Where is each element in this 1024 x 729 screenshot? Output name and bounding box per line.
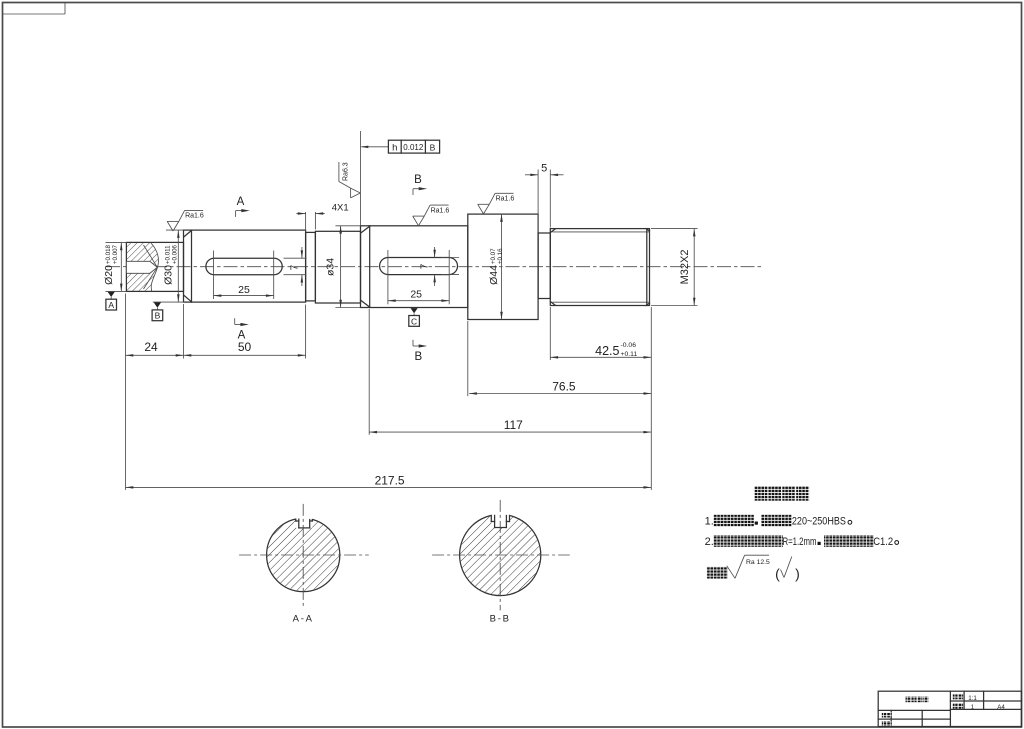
svg-text:4X1: 4X1 bbox=[332, 203, 349, 214]
svg-text:+0.006: +0.006 bbox=[171, 244, 178, 264]
svg-text:5: 5 bbox=[541, 163, 547, 175]
svg-text:Ø20: Ø20 bbox=[103, 265, 115, 285]
svg-text:50: 50 bbox=[238, 340, 252, 354]
svg-text:h: h bbox=[392, 143, 397, 154]
svg-text:-0.06: -0.06 bbox=[621, 342, 637, 349]
svg-text:25: 25 bbox=[410, 288, 422, 300]
svg-text:0.012: 0.012 bbox=[403, 143, 424, 152]
svg-text:C1.2: C1.2 bbox=[873, 536, 893, 548]
svg-text:76.5: 76.5 bbox=[552, 380, 576, 394]
svg-text:25: 25 bbox=[238, 284, 250, 296]
svg-text:Ø30: Ø30 bbox=[163, 265, 175, 285]
svg-text:Ra 12.5: Ra 12.5 bbox=[746, 559, 770, 566]
svg-text:(: ( bbox=[775, 566, 780, 582]
svg-text:A: A bbox=[237, 196, 245, 208]
svg-text:M32X2: M32X2 bbox=[679, 250, 691, 285]
svg-text:7: 7 bbox=[290, 264, 301, 270]
svg-text:Ø44: Ø44 bbox=[488, 265, 500, 285]
svg-text:C: C bbox=[411, 316, 417, 326]
svg-text:Ra6.3: Ra6.3 bbox=[343, 162, 350, 181]
svg-text:+0.16: +0.16 bbox=[497, 248, 504, 264]
svg-text:117: 117 bbox=[504, 418, 523, 432]
svg-text:A: A bbox=[108, 300, 114, 310]
svg-text:217.5: 217.5 bbox=[375, 474, 405, 488]
svg-text:+0.007: +0.007 bbox=[112, 244, 119, 264]
svg-text:42.5: 42.5 bbox=[595, 344, 619, 358]
svg-text:220~250HBS: 220~250HBS bbox=[792, 516, 846, 528]
svg-text:1.: 1. bbox=[705, 516, 714, 528]
svg-text:B: B bbox=[414, 351, 422, 363]
svg-text:A4: A4 bbox=[997, 704, 1005, 711]
svg-text:1:1: 1:1 bbox=[968, 695, 977, 702]
svg-text:+0.11: +0.11 bbox=[621, 351, 638, 358]
svg-text:7: 7 bbox=[420, 263, 431, 269]
svg-text:A-A: A-A bbox=[293, 614, 314, 625]
svg-text:ø34: ø34 bbox=[325, 258, 337, 276]
svg-text:2.: 2. bbox=[705, 536, 714, 548]
svg-text:A: A bbox=[238, 330, 246, 342]
svg-text:B-B: B-B bbox=[490, 614, 511, 625]
svg-text:1: 1 bbox=[971, 704, 975, 711]
svg-text:Ra1.6: Ra1.6 bbox=[496, 196, 515, 203]
svg-text:24: 24 bbox=[144, 340, 158, 354]
svg-text:R=1.2mm: R=1.2mm bbox=[783, 536, 817, 548]
svg-text:): ) bbox=[795, 566, 800, 582]
svg-text:Ra1.6: Ra1.6 bbox=[431, 207, 450, 214]
svg-text:B: B bbox=[414, 174, 422, 186]
svg-text:B: B bbox=[430, 142, 436, 152]
svg-text:B: B bbox=[155, 311, 161, 321]
svg-text:Ra1.6: Ra1.6 bbox=[185, 213, 204, 220]
